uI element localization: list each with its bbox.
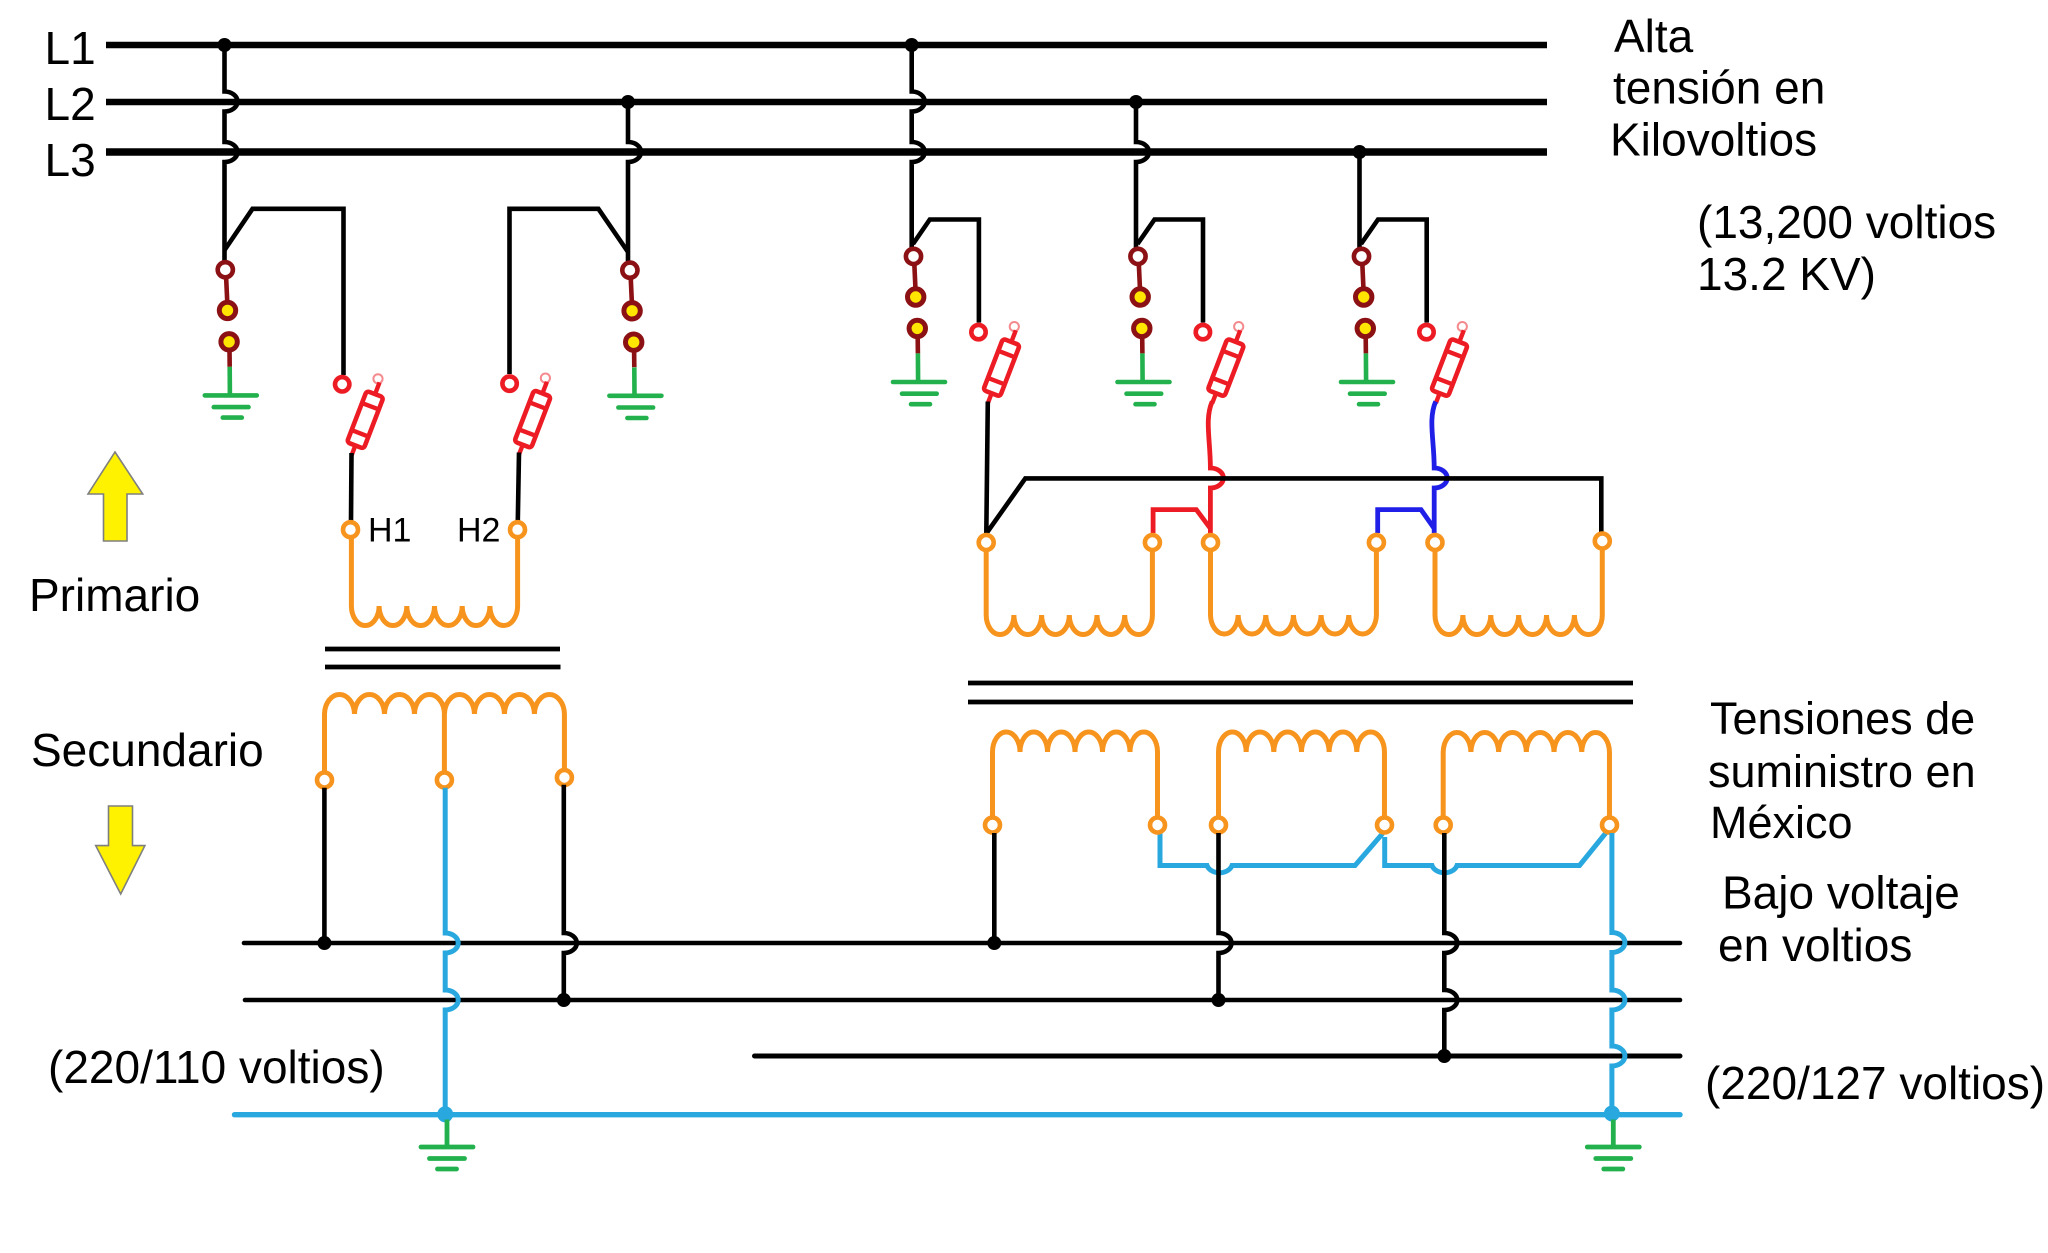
lightning arrester LA1 with ground xyxy=(205,262,257,417)
wire drop from L2 to arrester 4 with hop xyxy=(1136,102,1149,248)
wire delta closing link A1 to C2 xyxy=(986,478,1601,533)
wire center tap stub xyxy=(442,714,447,772)
wire L1 line xyxy=(106,42,1547,49)
wire branch from drop 5 to fuse 5 xyxy=(1361,220,1427,323)
svg-text:en voltios: en voltios xyxy=(1718,919,1912,971)
terminal secondary a1 xyxy=(985,818,1000,833)
arrow down yellow xyxy=(96,806,145,894)
ground neutral left xyxy=(421,1120,473,1170)
terminal B2 xyxy=(1369,535,1384,550)
node dot neutral right xyxy=(1604,1106,1620,1122)
node junction L2 dot xyxy=(621,95,635,109)
label Tensiones de suministro xyxy=(1708,693,1976,848)
terminal C2 xyxy=(1595,534,1610,549)
svg-text:suministro en: suministro en xyxy=(1708,746,1976,797)
lightning arrester LA4 with ground xyxy=(1118,249,1170,404)
transformer T1 primary winding xyxy=(351,538,517,626)
transformer T2 primary winding C xyxy=(1435,550,1602,635)
svg-text:Primario: Primario xyxy=(29,569,200,621)
transformer T2 primary winding A xyxy=(986,550,1152,635)
transformer T2 secondary winding a xyxy=(993,732,1158,817)
transformer T1 secondary winding with center tap xyxy=(325,695,565,772)
svg-text:H1: H1 xyxy=(368,512,411,550)
terminal H2 circle xyxy=(510,522,525,537)
lightning arrester LA5 with ground xyxy=(1341,249,1393,404)
terminal C1 xyxy=(1428,535,1443,550)
wire branch from drop 2 to fuse 2 xyxy=(510,209,629,374)
node dot bus2 right xyxy=(1212,993,1226,1007)
node dot bus1 right xyxy=(987,936,1001,950)
terminal secondary c1 xyxy=(1436,818,1451,833)
wire T1 secondary left to bus1 xyxy=(322,788,327,943)
svg-text:(220/110 voltios): (220/110 voltios) xyxy=(48,1041,385,1093)
terminal B1 xyxy=(1203,535,1218,550)
svg-text:(220/127 voltios): (220/127 voltios) xyxy=(1705,1057,2045,1109)
terminal T1 secondary left xyxy=(317,773,332,788)
transformer T2 primary winding B xyxy=(1211,550,1377,634)
wire bus phase 2 xyxy=(245,998,1680,1003)
wire red link fuse 4 to primary terminals with hop xyxy=(1153,402,1223,534)
svg-text:México: México xyxy=(1710,797,1853,848)
wire L2 line xyxy=(106,99,1547,106)
fuse F2 xyxy=(502,374,555,458)
svg-text:13.2 KV): 13.2 KV) xyxy=(1697,248,1876,300)
wire branch from drop 4 to fuse 4 xyxy=(1138,220,1204,323)
transformer T2 core xyxy=(968,683,1633,702)
terminal secondary b2 xyxy=(1377,818,1392,833)
svg-text:Tensiones de: Tensiones de xyxy=(1710,693,1975,744)
svg-text:Kilovoltios: Kilovoltios xyxy=(1610,114,1817,166)
wire light blue series link a2-b2 xyxy=(1160,832,1383,873)
wire branch from drop 1 to fuse 1 xyxy=(225,209,344,375)
terminal T1 secondary tap xyxy=(437,773,452,788)
wire secondary b1 to bus2 with hop xyxy=(1219,833,1232,1000)
wire drop from L1 to arrester 3 with hops xyxy=(912,45,925,248)
terminal A2 xyxy=(1145,535,1160,550)
node junction L1 dot xyxy=(218,38,232,52)
terminal secondary a2 xyxy=(1150,818,1165,833)
svg-text:L2: L2 xyxy=(45,78,96,130)
wire drop from L1 to arrester 1 with hops over L2 and L3 xyxy=(225,45,238,261)
wire fuse 2 to H2 xyxy=(518,453,519,522)
fuse F5 xyxy=(1419,322,1472,406)
transformer T1 core xyxy=(325,649,561,667)
wire T1 center tap to neutral with hops xyxy=(445,788,458,1115)
ground neutral right xyxy=(1587,1120,1639,1170)
node junction L2 dot right xyxy=(1129,95,1143,109)
lightning arrester LA2 with ground xyxy=(609,263,661,418)
wire secondary c2 to neutral with hops xyxy=(1612,833,1625,1115)
svg-text:H2: H2 xyxy=(457,512,500,550)
label Alta tension xyxy=(1610,10,1825,166)
wire drop from L2 to arrester 2 with hop over L3 xyxy=(628,102,641,261)
wire fuse 1 to H1 xyxy=(349,453,354,521)
node junction L3 dot xyxy=(1353,145,1367,159)
svg-text:Bajo voltaje: Bajo voltaje xyxy=(1722,867,1960,919)
transformer T2 secondary winding b xyxy=(1219,732,1385,818)
wire L3 line xyxy=(106,148,1547,155)
svg-text:tensión en: tensión en xyxy=(1613,62,1825,114)
terminal T1 secondary right xyxy=(557,770,572,785)
transformer T2 secondary winding c xyxy=(1443,733,1609,818)
arrow up yellow xyxy=(88,452,143,541)
fuse F4 xyxy=(1196,322,1249,406)
terminal secondary b1 xyxy=(1211,818,1226,833)
svg-text:L3: L3 xyxy=(45,134,96,186)
wire fuse 3 to primary A terminal xyxy=(986,402,988,535)
wire branch from drop 3 to fuse 3 xyxy=(913,220,979,323)
terminal A1 xyxy=(979,535,994,550)
wire secondary c1 to bus3 with hops xyxy=(1444,833,1457,1056)
lightning arrester LA3 with ground xyxy=(893,249,945,404)
wire neutral bus xyxy=(235,1112,1681,1117)
svg-text:(13,200 voltios: (13,200 voltios xyxy=(1697,196,1996,248)
fuse F1 xyxy=(335,374,388,458)
wire blue link fuse 5 to primary terminals with hop xyxy=(1378,402,1448,534)
svg-text:Alta: Alta xyxy=(1614,10,1694,62)
node dot bus3 xyxy=(1437,1049,1451,1063)
wire bus phase 1 xyxy=(244,941,1680,946)
node dot bus1 left xyxy=(317,936,331,950)
wire secondary a1 to bus1 xyxy=(992,833,997,943)
node dot bus2 left xyxy=(557,993,571,1007)
terminal H1 circle xyxy=(343,522,358,537)
fuse F3 xyxy=(971,322,1024,406)
terminal secondary c2 xyxy=(1602,818,1617,833)
wire T1 secondary right to bus2 with hop xyxy=(564,785,577,1000)
wire light blue series link b2-c2 xyxy=(1385,831,1608,873)
wire bus phase 3 xyxy=(755,1054,1681,1059)
node dot neutral left xyxy=(437,1106,453,1122)
wire drop from L3 to arrester 5 xyxy=(1357,152,1362,248)
label 13200 voltios xyxy=(1697,196,1996,300)
node junction L1 dot right xyxy=(905,38,919,52)
label Bajo voltaje xyxy=(1718,867,1960,972)
svg-text:L1: L1 xyxy=(45,22,96,74)
svg-text:Secundario: Secundario xyxy=(31,724,264,776)
